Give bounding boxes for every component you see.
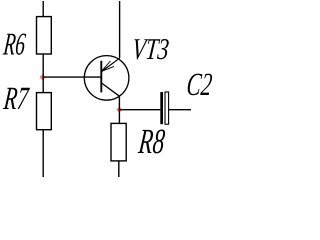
svg-text:R8: R8 [136, 122, 167, 161]
resistor R6 [37, 17, 52, 54]
wire: base wire from node A to transistor base bar [43, 76, 102, 78]
wire: node B to capacitor C2 [119, 109, 160, 111]
svg-text:C2: C2 [185, 66, 214, 102]
svg-text:VT3: VT3 [131, 32, 171, 66]
label C2 [185, 66, 214, 102]
transistor VT3 emitter arrow barb upper [101, 61, 110, 71]
wire: right rail top (emitter to supply) [119, 1, 121, 58]
wire: R6 bottom to R7 top through node A [42, 54, 44, 93]
wire: C2 output [169, 109, 191, 111]
wire: R8 bottom lead [118, 161, 120, 177]
node B (emitter/output junction dot) [116, 107, 122, 113]
label VT3 [131, 32, 171, 66]
label R6 [1, 26, 27, 62]
wire: left rail top (supply to R6) [42, 1, 44, 17]
capacitor C2 left plate (filled) [160, 92, 163, 124]
label R8 [136, 122, 167, 161]
capacitor C2 right plate (hollow) [165, 92, 169, 124]
wire: collector to R8 through node B [118, 96, 120, 123]
transistor VT3 emitter arrow barb lower [101, 66, 114, 71]
label R7 [1, 80, 31, 116]
svg-text:R6: R6 [1, 26, 27, 62]
resistor R8 [111, 123, 126, 160]
transistor VT3 emitter lead [102, 58, 120, 71]
transistor VT3 circle [84, 56, 129, 101]
resistor R7 [37, 93, 52, 130]
svg-text:R7: R7 [1, 80, 31, 116]
wire: R7 bottom to lower rail [42, 130, 44, 177]
node A (base junction dot) [39, 74, 45, 80]
transistor VT3 base bar [100, 61, 102, 93]
transistor VT3 collector lead [101, 83, 119, 96]
